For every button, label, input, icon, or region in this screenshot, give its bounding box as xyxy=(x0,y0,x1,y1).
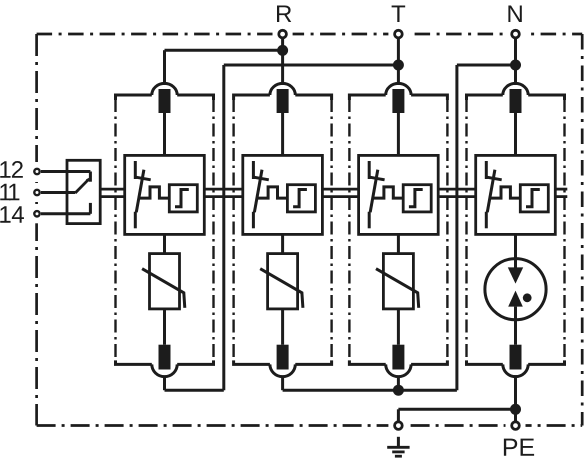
monitoring bus upper wire segment 2 xyxy=(204,188,243,191)
wire module 4 contact to trigger unit xyxy=(514,113,517,155)
spark gap (gas discharge tube) circle, module 4 xyxy=(485,259,546,320)
wire trigger unit to varistor, module 2 xyxy=(281,234,284,253)
module 4 top terminal line xyxy=(467,95,565,100)
wire varistor to bottom contact, module 3 xyxy=(397,309,400,345)
module 3 top terminal line xyxy=(349,95,447,100)
spark gap indicator dot xyxy=(523,293,532,302)
module 3 disconnector bottom stub xyxy=(368,212,371,229)
module 3 trigger staircase link xyxy=(374,187,404,198)
module 2 disconnector fixed-contact tick xyxy=(254,177,269,180)
module 3 disconnector blade xyxy=(370,170,378,213)
module 2 step-response symbol xyxy=(293,190,307,207)
module 4 bottom disconnect contact (solid bar) xyxy=(510,345,522,370)
ground symbol xyxy=(397,437,400,448)
module 3 bottom disconnect contact (solid bar) xyxy=(392,345,404,370)
module 4 disconnector blade xyxy=(487,170,495,213)
protection module 1 dash-dot outline left side xyxy=(114,99,116,361)
module 3 top plug contact arc xyxy=(386,83,411,95)
module 2 disconnector bottom stub xyxy=(252,212,255,229)
module 2 trigger characteristic box xyxy=(287,185,315,212)
module 1 top plug contact arc xyxy=(152,83,177,95)
wire node T branch left (horizontal) xyxy=(224,64,399,67)
changeover blade 11->12 with arrowhead xyxy=(75,180,88,193)
monitoring bus lower wire segment 2 xyxy=(204,195,243,198)
wire terminal N down to protection path 4 xyxy=(514,37,517,85)
module 1 disconnector blade xyxy=(136,170,144,213)
thermal disconnector / trigger unit box, module 4 xyxy=(476,155,556,234)
junction path 3 / N bus xyxy=(393,385,404,396)
enclosure border left edge (dash-dot) xyxy=(35,34,38,426)
monitoring bus upper wire segment 4 xyxy=(438,188,476,191)
protection module 1 dash-dot outline right side xyxy=(212,99,214,361)
wire path 4 bottom to PE node xyxy=(514,375,517,409)
terminal 14 (open circle) xyxy=(34,211,39,216)
wire down to earth terminal xyxy=(397,409,400,421)
monitoring bus lower wire segment 3 xyxy=(322,195,358,198)
protection module 3 dash-dot outline right side xyxy=(446,99,448,361)
earth terminal (open circle) xyxy=(395,422,403,430)
wire terminal 11 into contact box xyxy=(41,191,75,194)
wire terminal 14 into contact box xyxy=(41,212,90,215)
module 4 bottom terminal line xyxy=(467,360,565,364)
module 2 bottom terminal line xyxy=(234,360,332,364)
module 1 step-response symbol xyxy=(175,190,189,207)
module 2 top disconnect contact (solid bar) xyxy=(277,89,289,113)
module 4 step-response symbol xyxy=(526,190,540,207)
module 4 top disconnect contact (solid bar) xyxy=(510,89,522,113)
junction node N xyxy=(510,60,521,71)
varistor RV3 body xyxy=(383,254,413,309)
monitoring bus upper wire segment 1 xyxy=(100,188,125,191)
terminal 12 (open circle) xyxy=(34,169,39,174)
wire path 2 bottom down xyxy=(281,376,284,390)
protection module 3 dash-dot outline left side xyxy=(348,99,350,361)
protection module 2 dash-dot outline left side xyxy=(232,99,234,361)
monitoring bus lower wire segment 5 xyxy=(555,195,567,198)
module 2 disconnector top stub xyxy=(252,161,255,179)
wire path 3 bottom down xyxy=(397,376,400,390)
contact 12 stub xyxy=(89,172,92,182)
enclosure border right edge (dash-dot) xyxy=(581,34,584,426)
varistor RV2 body xyxy=(268,254,298,309)
wire PE node to earth terminal (horizontal) xyxy=(398,408,515,411)
module 1 trigger characteristic box xyxy=(169,185,197,212)
monitoring bus lower wire segment 1 xyxy=(100,195,125,198)
label 11 xyxy=(0,184,10,201)
wire path 1 bottom to T drop (horizontal) xyxy=(165,389,224,392)
junction node R xyxy=(277,45,288,56)
module 4 disconnector top stub xyxy=(485,161,488,179)
spark gap upper electrode arrow xyxy=(508,267,523,283)
wire node R branch to path 1 (horizontal) xyxy=(165,49,283,52)
module 3 step-response symbol xyxy=(409,190,423,207)
wire T drop between path 1 and 2 (vertical) xyxy=(222,65,225,390)
wire varistor to bottom contact, module 2 xyxy=(281,309,284,345)
module 1 top disconnect contact (solid bar) xyxy=(159,89,171,113)
wire terminal R down to protection path 2 xyxy=(281,37,284,85)
label T xyxy=(392,5,406,22)
wire terminal 12 into contact box xyxy=(41,170,90,173)
module 4 disconnector bottom stub xyxy=(485,212,488,229)
wire varistor to bottom contact, module 1 xyxy=(163,309,166,345)
wire trigger unit to varistor, module 3 xyxy=(397,234,400,253)
remote signalling changeover contact box S1 xyxy=(67,160,100,223)
protection module 4 dash-dot outline left side xyxy=(465,99,467,361)
spark gap lower electrode arrow xyxy=(508,291,523,307)
module 1 bottom plug contact arc xyxy=(152,364,177,376)
protection module 2 dash-dot outline right side xyxy=(330,99,332,361)
module 1 top terminal line xyxy=(116,95,214,100)
module 1 disconnector fixed-contact tick xyxy=(136,177,151,180)
wire down into path 1 xyxy=(163,50,166,85)
monitoring bus upper wire segment 3 xyxy=(322,188,358,191)
terminal PE (open circle) xyxy=(512,422,520,430)
wire node N branch left (horizontal) xyxy=(457,64,516,67)
thermal disconnector / trigger unit box, module 1 xyxy=(125,155,205,234)
thermal disconnector / trigger unit box, module 3 xyxy=(359,155,439,234)
varistor RV1 strike-through xyxy=(142,269,185,308)
module 1 bottom disconnect contact (solid bar) xyxy=(159,345,171,370)
wire module 1 contact to trigger unit xyxy=(163,113,166,155)
module 2 disconnector blade xyxy=(254,170,262,213)
module 4 bottom plug contact arc xyxy=(503,364,528,376)
enclosure border bottom edge (dash-dot) xyxy=(37,424,583,427)
wire path 1 bottom down xyxy=(163,376,166,390)
enclosure border top edge (dash-dot) xyxy=(37,33,583,36)
module 2 top terminal line xyxy=(234,95,332,100)
module 1 disconnector bottom stub xyxy=(134,212,137,229)
module 1 disconnector top stub xyxy=(134,161,137,179)
wire spark gap to bottom contact, module 4 xyxy=(514,307,517,345)
varistor RV2 strike-through xyxy=(260,269,303,308)
monitoring bus upper wire segment 5 xyxy=(555,188,567,191)
contact 14 stub xyxy=(89,203,92,214)
wire module 3 contact to trigger unit xyxy=(397,113,400,155)
terminal T (open circle) xyxy=(395,30,403,38)
monitoring bus lower wire segment 4 xyxy=(438,195,476,198)
junction node T xyxy=(393,60,404,71)
module 1 bottom terminal line xyxy=(116,360,214,364)
wire N drop between path 3 and 4 (vertical) xyxy=(455,65,458,390)
label R xyxy=(277,5,291,22)
module 3 bottom terminal line xyxy=(349,360,447,364)
protection module 4 dash-dot outline right side xyxy=(563,99,565,361)
wire terminal T down to protection path 3 xyxy=(397,37,400,85)
wire down to PE terminal xyxy=(514,409,517,421)
label 14 xyxy=(0,206,10,223)
label PE xyxy=(504,439,517,456)
module 4 trigger staircase link xyxy=(491,187,521,198)
terminal N (open circle) xyxy=(512,30,520,38)
module 4 disconnector fixed-contact tick xyxy=(487,177,502,180)
varistor RV1 body xyxy=(150,254,180,309)
wire bottom N bus (horizontal) xyxy=(283,389,457,392)
thermal disconnector / trigger unit box, module 2 xyxy=(243,155,323,234)
terminal 11 (open circle) xyxy=(34,190,39,195)
module 3 disconnector top stub xyxy=(368,161,371,179)
wire module 2 contact to trigger unit xyxy=(281,113,284,155)
wire trigger unit to varistor, module 1 xyxy=(163,234,166,253)
label N xyxy=(508,5,521,22)
module 2 trigger staircase link xyxy=(258,187,288,198)
varistor RV3 strike-through xyxy=(376,269,419,308)
module 2 bottom plug contact arc xyxy=(270,364,295,376)
module 2 top plug contact arc xyxy=(270,83,295,95)
label 12 xyxy=(0,161,10,178)
module 1 trigger staircase link xyxy=(140,187,170,198)
module 3 trigger characteristic box xyxy=(403,185,431,212)
module 3 disconnector fixed-contact tick xyxy=(370,177,385,180)
module 4 top plug contact arc xyxy=(503,83,528,95)
module 3 top disconnect contact (solid bar) xyxy=(392,89,404,113)
module 4 trigger characteristic box xyxy=(520,185,548,212)
terminal R (open circle) xyxy=(279,30,287,38)
module 3 bottom plug contact arc xyxy=(386,364,411,376)
junction PE node xyxy=(510,404,521,415)
module 2 bottom disconnect contact (solid bar) xyxy=(277,345,289,370)
wire trigger unit to spark gap, module 4 xyxy=(514,234,517,267)
